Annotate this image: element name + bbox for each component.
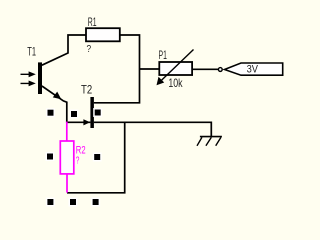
pad row1 col3 [93,108,102,117]
svg-text:P1: P1 [159,49,167,62]
resistor R2 (highlighted) [60,141,74,174]
svg-text:10k: 10k [168,77,182,90]
svg-text:T2: T2 [81,83,92,96]
pad row2 col1 [46,152,55,161]
wire: bottom return from R2 bottom to emitter net [67,122,125,193]
wire: R1 right down to T2 collector [94,35,140,103]
resistor R1 [86,28,120,41]
pad row3 col2 [69,198,78,207]
wire: junction to P1 left [140,68,160,70]
wire: R1 left to T1 collector [42,35,86,65]
phototransistor T1 [21,62,62,99]
potentiometer P1 [157,50,194,86]
svg-text:?: ? [87,44,92,55]
svg-text:T1: T1 [27,45,36,58]
wire: P1 right to terminal [192,68,218,70]
wire: T2 right to ground [94,122,211,136]
pad row3 col3 [91,198,100,207]
pad row1 col2 [70,110,79,119]
pad row1 col1 [46,108,55,117]
transistor T2 [83,97,94,128]
wire: magenta R2 top lead [66,122,68,141]
pad row3 col1 [46,198,55,207]
ground symbol [197,137,222,146]
svg-text:?: ? [76,156,80,167]
svg-text:R1: R1 [88,16,97,29]
wire: T1 emitter down and right to T2 [42,86,91,122]
terminal circle node [218,68,222,72]
pad row2 col3 [93,153,102,162]
svg-text:3V: 3V [247,64,259,76]
wire: magenta R2 bottom lead [66,174,68,193]
supply flag 3V [225,63,283,75]
